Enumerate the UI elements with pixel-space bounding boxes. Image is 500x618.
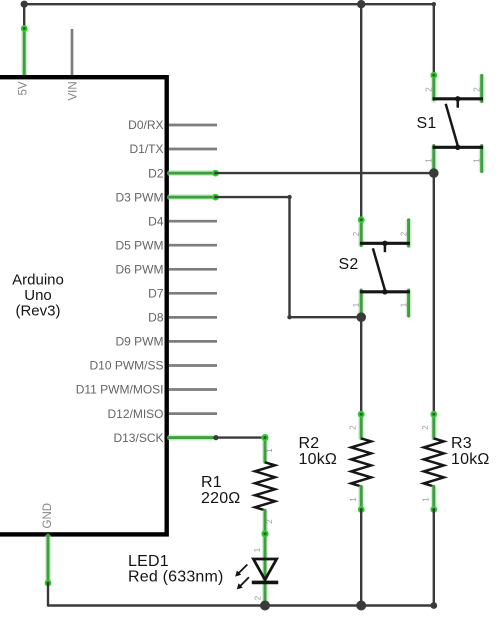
svg-text:LED1: LED1: [128, 553, 169, 570]
wire D3 to S2 junction: [216, 195, 362, 319]
wire S2 junction to R2: [360, 317, 362, 414]
wire D2 to S1 junction: [216, 172, 434, 174]
svg-text:D5 PWM: D5 PWM: [116, 238, 164, 252]
svg-text:1: 1: [349, 497, 358, 502]
junction S2 / D3 / R2: [356, 312, 366, 322]
svg-text:1: 1: [473, 158, 482, 163]
junction S1 / D2 / R3: [429, 168, 439, 178]
svg-text:2: 2: [265, 519, 274, 524]
wire 5V pin (green highlighted): [21, 25, 28, 77]
switch S1: [417, 72, 484, 173]
svg-text:GND: GND: [42, 503, 54, 529]
pin D8: [148, 311, 217, 325]
svg-text:2: 2: [473, 87, 482, 92]
svg-text:2: 2: [254, 595, 263, 600]
svg-text:2: 2: [425, 87, 434, 92]
resistor R1 220: [201, 434, 275, 534]
label GND: [42, 503, 54, 529]
svg-text:220Ω: 220Ω: [201, 490, 240, 507]
Arduino Uno (Rev3) title: [12, 272, 64, 320]
svg-text:S2: S2: [339, 256, 359, 273]
Arduino Uno box: [0, 77, 167, 534]
svg-text:R3: R3: [451, 435, 472, 452]
svg-text:Red (633nm): Red (633nm): [128, 569, 224, 586]
pin D6 PWM: [116, 263, 218, 277]
pin D2 (connected, green): [148, 166, 219, 180]
pin D10 PWM/SS: [89, 359, 217, 373]
svg-text:D10 PWM/SS: D10 PWM/SS: [89, 359, 163, 373]
wire top rail to S1 pin 2: [433, 4, 435, 75]
svg-text:1: 1: [422, 497, 431, 502]
LED LED1: [128, 530, 278, 605]
pin D0/RX: [128, 118, 217, 132]
label VIN: [68, 81, 80, 100]
pin D1/TX: [129, 142, 217, 156]
wire D13 to R1: [213, 435, 265, 440]
wire R3 to ground rail: [433, 510, 435, 606]
pin D11 PWM/MOSI: [76, 383, 217, 397]
svg-text:2: 2: [421, 425, 430, 430]
svg-text:D6 PWM: D6 PWM: [116, 263, 164, 277]
pin D5 PWM: [116, 238, 218, 252]
pin D7: [148, 287, 217, 301]
svg-text:D2: D2: [148, 166, 164, 180]
pin GND lead (green highlighted): [45, 535, 52, 586]
svg-text:2: 2: [352, 231, 361, 236]
pin VIN lead: [71, 29, 74, 77]
svg-text:1: 1: [265, 448, 274, 453]
svg-text:D4: D4: [148, 214, 164, 228]
svg-text:VIN: VIN: [68, 81, 80, 100]
wire S1 junction to R3: [433, 173, 435, 414]
svg-text:D0/RX: D0/RX: [128, 118, 163, 132]
svg-text:2: 2: [400, 231, 409, 236]
pin D12/MISO: [107, 407, 217, 421]
svg-text:(Rev3): (Rev3): [15, 303, 60, 320]
wire R2 to ground rail: [360, 510, 362, 606]
switch S2: [339, 216, 410, 317]
svg-text:1: 1: [425, 158, 434, 163]
svg-text:5V: 5V: [18, 81, 30, 95]
svg-text:D7: D7: [148, 287, 164, 301]
svg-text:1: 1: [253, 547, 262, 552]
top rail wire: [21, 1, 436, 29]
pin D3 PWM (connected, green): [116, 190, 219, 204]
resistor R2 10k: [299, 411, 372, 513]
svg-text:2: 2: [348, 425, 357, 430]
svg-text:D8: D8: [148, 311, 164, 325]
junction R2 / ground rail: [356, 601, 366, 611]
svg-text:S1: S1: [417, 115, 437, 132]
junction top rail / S2 branch: [357, 0, 365, 8]
svg-text:10kΩ: 10kΩ: [299, 451, 338, 468]
label 5V: [18, 81, 30, 95]
svg-text:D9 PWM: D9 PWM: [116, 335, 164, 349]
svg-text:D3 PWM: D3 PWM: [116, 190, 164, 204]
pin D9 PWM: [116, 335, 218, 349]
svg-text:R1: R1: [201, 474, 222, 491]
svg-text:10kΩ: 10kΩ: [451, 451, 490, 468]
svg-text:1: 1: [352, 302, 361, 307]
ground rail wire: [48, 583, 437, 609]
svg-text:D11 PWM/MOSI: D11 PWM/MOSI: [76, 383, 164, 397]
svg-text:1: 1: [400, 302, 409, 307]
svg-text:D1/TX: D1/TX: [129, 142, 163, 156]
svg-text:R2: R2: [299, 435, 320, 452]
svg-text:D12/MISO: D12/MISO: [107, 407, 163, 421]
svg-text:Arduino: Arduino: [12, 272, 64, 289]
svg-text:D13/SCK: D13/SCK: [113, 431, 163, 445]
resistor R3 10k: [421, 411, 490, 513]
junction LED1 / ground rail: [260, 601, 270, 611]
wire top rail to S2 pin 2: [360, 4, 362, 220]
pin D4: [148, 214, 217, 228]
pin D13/SCK (connected, green): [113, 431, 214, 445]
svg-text:Uno: Uno: [24, 287, 52, 304]
